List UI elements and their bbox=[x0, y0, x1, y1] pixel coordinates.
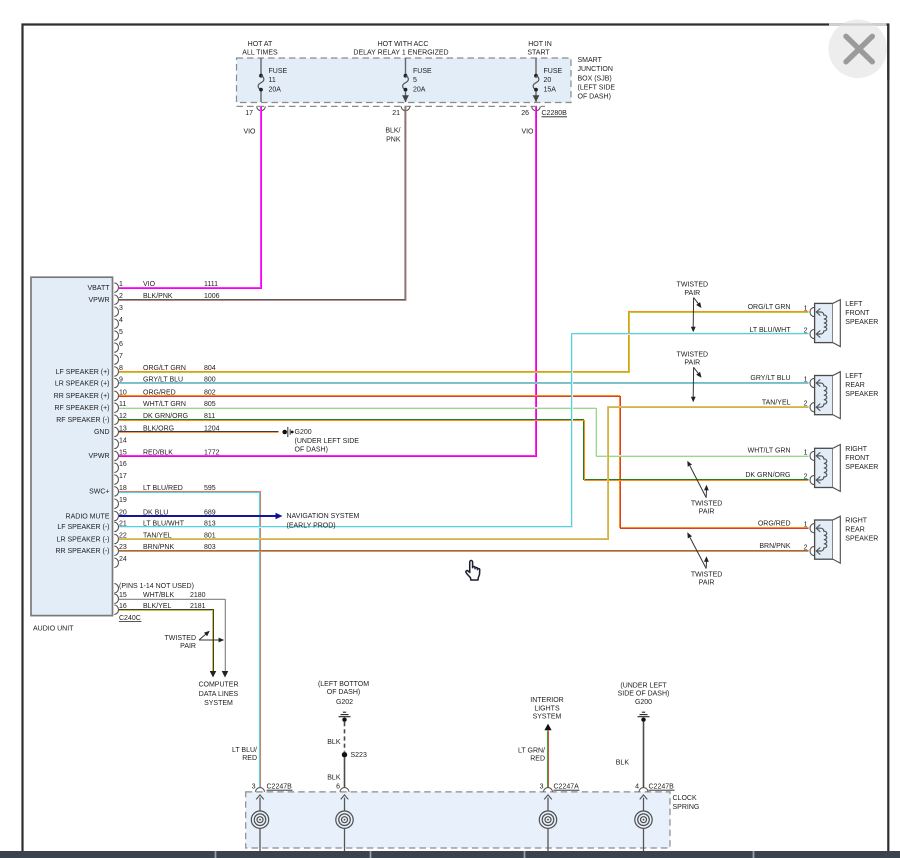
svg-text:(LEFT BOTTOM: (LEFT BOTTOM bbox=[318, 681, 369, 688]
C240C pin 15 bbox=[114, 592, 205, 603]
pin label SWC+ (pin 18) bbox=[89, 489, 109, 496]
svg-text:LT BLU/: LT BLU/ bbox=[232, 747, 257, 754]
svg-text:PAIR: PAIR bbox=[684, 290, 700, 297]
pin label RR SPEAKER (-) (pin 23) bbox=[55, 548, 109, 555]
wire BLK G200 to clock spring pin 4 bbox=[616, 722, 644, 788]
svg-text:15: 15 bbox=[119, 592, 127, 599]
svg-text:18: 18 bbox=[119, 485, 127, 492]
svg-text:SPEAKER: SPEAKER bbox=[845, 391, 878, 398]
arrow to navigation system bbox=[276, 513, 360, 530]
svg-text:DK GRN/ORG: DK GRN/ORG bbox=[745, 472, 790, 479]
speaker LEFT REAR SPEAKER bbox=[804, 372, 879, 419]
svg-text:TAN/YEL: TAN/YEL bbox=[762, 399, 791, 406]
svg-text:SIDE OF DASH): SIDE OF DASH) bbox=[618, 690, 670, 697]
audio unit pin 12 bracket bbox=[114, 413, 127, 424]
wire label TAN/YEL 801 bbox=[143, 532, 216, 539]
twisted pair label (C240C data lines) bbox=[165, 631, 225, 650]
wire label GRY/LT BLU (speaker side) bbox=[750, 375, 790, 382]
smart junction box (SJB) bbox=[237, 58, 572, 106]
svg-text:1: 1 bbox=[804, 377, 808, 384]
svg-text:6: 6 bbox=[119, 341, 123, 348]
wire label LT BLU/RED 595 bbox=[143, 485, 216, 492]
svg-text:17: 17 bbox=[119, 473, 127, 480]
pin label VPWR (pin 2) bbox=[89, 297, 110, 304]
svg-text:G200: G200 bbox=[295, 429, 312, 436]
wire VIO 1111 (pin 1 to fuse 11) bbox=[119, 107, 262, 289]
svg-text:G202: G202 bbox=[336, 699, 353, 706]
svg-text:WHT/BLK: WHT/BLK bbox=[143, 592, 174, 599]
svg-text:G200: G200 bbox=[635, 699, 652, 706]
svg-text:BLK/YEL: BLK/YEL bbox=[143, 603, 172, 610]
svg-text:OF DASH): OF DASH) bbox=[327, 689, 360, 696]
wire label BLK/ORG 1204 bbox=[143, 425, 220, 432]
node HOT WITH ACC DELAY RELAY 1 ENERGIZED bbox=[353, 41, 448, 57]
svg-text:LT BLU/RED: LT BLU/RED bbox=[143, 485, 183, 492]
svg-text:RED: RED bbox=[242, 755, 257, 762]
svg-text:RR SPEAKER (-): RR SPEAKER (-) bbox=[55, 548, 109, 555]
svg-text:SPEAKER: SPEAKER bbox=[845, 464, 878, 471]
svg-text:HOT WITH ACC: HOT WITH ACC bbox=[378, 41, 429, 48]
wire label LT BLU/WHT (speaker side) bbox=[750, 327, 792, 334]
svg-text:20A: 20A bbox=[413, 87, 426, 94]
svg-text:START: START bbox=[527, 50, 550, 57]
pin label LF SPEAKER (+) (pin 8) bbox=[56, 369, 110, 376]
wire label LT BLU/RED (bottom) bbox=[232, 747, 257, 762]
svg-text:OF DASH): OF DASH) bbox=[295, 446, 328, 453]
svg-text:FRONT: FRONT bbox=[845, 310, 870, 317]
svg-text:HOT AT: HOT AT bbox=[248, 41, 273, 48]
wire label WHT/LT GRN (speaker side) bbox=[748, 448, 791, 455]
svg-text:RED: RED bbox=[530, 755, 545, 762]
audio unit pin 22 bracket bbox=[114, 532, 127, 543]
wire BLK G202 to S223 (dashed) bbox=[327, 722, 344, 752]
wire BLK S223 to clock spring pin 6 bbox=[327, 757, 344, 787]
clock spring connector C2247B pin 4 entry bbox=[635, 784, 675, 851]
svg-text:GRY/LT BLU: GRY/LT BLU bbox=[750, 375, 790, 382]
svg-text:21: 21 bbox=[392, 110, 400, 117]
svg-text:GND: GND bbox=[94, 429, 110, 436]
svg-text:CLOCK: CLOCK bbox=[673, 795, 697, 802]
audio unit pin 8 bracket bbox=[114, 365, 123, 376]
svg-text:ALL TIMES: ALL TIMES bbox=[242, 50, 278, 57]
svg-text:LIGHTS: LIGHTS bbox=[534, 705, 560, 712]
wire LT BLU/RED 595 (pin 18 to clock spring) bbox=[119, 492, 261, 788]
svg-text:SYSTEM: SYSTEM bbox=[533, 714, 562, 721]
svg-text:(UNDER LEFT: (UNDER LEFT bbox=[620, 683, 667, 690]
svg-text:(EARLY PROD): (EARLY PROD) bbox=[287, 523, 336, 530]
pin label RF SPEAKER (+) (pin 11) bbox=[54, 405, 109, 412]
svg-text:C2247A: C2247A bbox=[554, 784, 580, 791]
svg-text:2: 2 bbox=[804, 474, 808, 481]
svg-text:COMPUTER: COMPUTER bbox=[198, 682, 238, 689]
audio unit pin 10 bracket bbox=[114, 389, 127, 400]
fuse F11 (FUSE 11 20A) bbox=[258, 58, 287, 102]
svg-text:PAIR: PAIR bbox=[684, 359, 700, 366]
svg-text:24: 24 bbox=[119, 556, 127, 563]
svg-text:SYSTEM: SYSTEM bbox=[204, 700, 233, 707]
wire label GRY/LT BLU 800 bbox=[143, 376, 216, 383]
svg-text:16: 16 bbox=[119, 461, 127, 468]
audio unit pin 6 bracket bbox=[114, 341, 123, 352]
pin label RR SPEAKER (+) (pin 10) bbox=[54, 393, 110, 400]
clock spring connector C2247A pin 3 entry bbox=[539, 784, 579, 851]
svg-text:5: 5 bbox=[413, 77, 417, 84]
pin label LR SPEAKER (+) (pin 9) bbox=[55, 380, 110, 387]
pin label GND (pin 13) bbox=[94, 429, 110, 436]
wire label VIO (fuse 20) bbox=[521, 129, 534, 136]
ground G200 (right) bbox=[618, 683, 670, 722]
node HOT AT ALL TIMES bbox=[242, 41, 278, 57]
svg-text:JUNCTION: JUNCTION bbox=[578, 66, 613, 73]
wire label RED/BLK 1772 bbox=[143, 449, 220, 456]
svg-text:3: 3 bbox=[252, 784, 256, 791]
svg-text:8: 8 bbox=[119, 365, 123, 372]
audio unit pin 20 bracket bbox=[114, 509, 127, 520]
svg-text:HOT IN: HOT IN bbox=[528, 41, 552, 48]
splice S223 bbox=[342, 752, 367, 759]
arrow to interior lights system bbox=[530, 697, 563, 730]
pin label VPWR (pin 15) bbox=[89, 453, 110, 460]
wire label LT BLU/WHT 813 bbox=[143, 520, 216, 527]
wire label ORG/LT GRN (speaker side) bbox=[748, 304, 791, 311]
connector label C240C bbox=[119, 615, 142, 622]
connector C240C (pins 1-14 not used note) bbox=[114, 583, 194, 593]
svg-text:AUDIO UNIT: AUDIO UNIT bbox=[33, 625, 74, 632]
pin label RADIO MUTE (pin 20) bbox=[66, 513, 110, 520]
svg-text:PAIR: PAIR bbox=[699, 580, 715, 587]
svg-text:804: 804 bbox=[204, 365, 216, 372]
svg-text:1: 1 bbox=[804, 449, 808, 456]
wire DK GRN/ORG 811 (pin 12 to right front speaker 2) bbox=[119, 420, 809, 481]
arrows to computer data lines system bbox=[198, 671, 238, 707]
svg-text:LEFT: LEFT bbox=[845, 373, 863, 380]
svg-text:SWC+: SWC+ bbox=[89, 489, 109, 496]
svg-text:LF SPEAKER (-): LF SPEAKER (-) bbox=[57, 524, 109, 531]
wire label BLK/PNK 1006 bbox=[143, 293, 220, 300]
svg-text:1: 1 bbox=[804, 522, 808, 529]
svg-text:TWISTED: TWISTED bbox=[691, 501, 723, 508]
svg-text:TWISTED: TWISTED bbox=[165, 635, 197, 642]
fuse F5 (FUSE 5 20A) bbox=[402, 58, 432, 102]
wire BLK/ORG 1204 (pin 13 to G200) bbox=[119, 432, 279, 433]
svg-text:11: 11 bbox=[269, 77, 276, 84]
svg-text:17: 17 bbox=[245, 110, 253, 117]
svg-text:TWISTED: TWISTED bbox=[691, 572, 723, 579]
svg-text:VPWR: VPWR bbox=[89, 453, 110, 460]
svg-text:RIGHT: RIGHT bbox=[845, 446, 868, 453]
audio unit pin 9 bracket bbox=[114, 376, 123, 387]
connector C2280B pin 26 bbox=[521, 106, 567, 117]
wire label DK GRN/ORG (speaker side) bbox=[745, 472, 790, 479]
svg-text:PNK: PNK bbox=[386, 137, 401, 144]
svg-text:2: 2 bbox=[804, 401, 808, 408]
wire label ORG/LT GRN 804 bbox=[143, 365, 216, 372]
svg-text:DELAY RELAY 1 ENERGIZED: DELAY RELAY 1 ENERGIZED bbox=[353, 50, 448, 57]
svg-text:BLK: BLK bbox=[327, 775, 341, 782]
audio unit pin 18 bracket bbox=[114, 485, 127, 496]
audio unit pin 11 bracket bbox=[114, 401, 126, 412]
svg-text:VIO: VIO bbox=[521, 129, 534, 136]
wire label DK BLU 689 bbox=[143, 509, 216, 516]
wire DK BLU 689 (pin 20 to navigation system) bbox=[119, 516, 276, 517]
svg-text:PAIR: PAIR bbox=[180, 643, 196, 650]
svg-text:TWISTED: TWISTED bbox=[677, 351, 709, 358]
speaker RIGHT FRONT SPEAKER bbox=[804, 445, 879, 492]
SJB label bbox=[578, 57, 616, 100]
svg-text:SMART: SMART bbox=[578, 57, 603, 64]
pin label RF SPEAKER (-) (pin 12) bbox=[56, 417, 109, 424]
wire label VIO 1111 bbox=[143, 281, 218, 288]
wire label VIO (fuse 11) bbox=[243, 129, 256, 136]
svg-text:BLK/: BLK/ bbox=[385, 128, 400, 135]
svg-text:LF SPEAKER (+): LF SPEAKER (+) bbox=[56, 369, 110, 376]
bottom toolbar band bbox=[0, 851, 900, 858]
svg-text:15A: 15A bbox=[544, 87, 557, 94]
svg-text:VIO: VIO bbox=[143, 281, 156, 288]
twisted pair label (right rear) bbox=[687, 532, 722, 586]
svg-text:ORG/LT GRN: ORG/LT GRN bbox=[748, 304, 791, 311]
svg-text:RIGHT: RIGHT bbox=[845, 518, 868, 525]
svg-text:INTERIOR: INTERIOR bbox=[530, 697, 563, 704]
svg-text:595: 595 bbox=[204, 485, 216, 492]
svg-text:(PINS 1-14 NOT USED): (PINS 1-14 NOT USED) bbox=[119, 583, 194, 590]
audio unit pin 19 bracket bbox=[114, 497, 127, 508]
wire label ORG/RED 802 bbox=[143, 389, 216, 396]
C240C pin 16 bbox=[114, 603, 205, 614]
svg-text:5: 5 bbox=[119, 329, 123, 336]
svg-text:SPEAKER: SPEAKER bbox=[845, 536, 878, 543]
wire label BLK/PNK (fuse 5) bbox=[385, 128, 401, 144]
audio unit pin 14 bracket bbox=[114, 437, 127, 448]
svg-text:VPWR: VPWR bbox=[89, 297, 110, 304]
svg-text:3: 3 bbox=[540, 784, 544, 791]
wire label BRN/PNK (speaker side) bbox=[759, 543, 790, 550]
svg-text:LT GRN/: LT GRN/ bbox=[518, 747, 545, 754]
pin label LR SPEAKER (-) (pin 22) bbox=[57, 536, 110, 543]
connector C2280B pin 21 bbox=[392, 106, 410, 117]
svg-text:2180: 2180 bbox=[190, 592, 206, 599]
svg-text:FRONT: FRONT bbox=[845, 455, 870, 462]
wire BRN/PNK 803 (pin 23 to right rear speaker 2) bbox=[119, 551, 809, 552]
svg-text:19: 19 bbox=[119, 497, 127, 504]
connector C2280B pin 17 bbox=[245, 106, 265, 117]
svg-text:S223: S223 bbox=[351, 752, 367, 759]
audio unit pin 7 bracket bbox=[114, 353, 123, 364]
svg-text:RADIO MUTE: RADIO MUTE bbox=[66, 513, 110, 520]
audio unit pin 23 bracket bbox=[114, 544, 127, 555]
audio unit pin 15 bracket bbox=[114, 449, 127, 460]
audio unit pin 5 bracket bbox=[114, 329, 123, 340]
twisted pair label (left rear) bbox=[677, 351, 709, 402]
wire label LT GRN/RED bbox=[518, 747, 545, 762]
audio unit pin 3 bracket bbox=[114, 305, 123, 316]
wire label ORG/RED (speaker side) bbox=[758, 520, 791, 527]
close button X bbox=[829, 20, 889, 81]
svg-text:RR SPEAKER (+): RR SPEAKER (+) bbox=[54, 393, 110, 400]
svg-text:20A: 20A bbox=[269, 87, 282, 94]
pin label LF SPEAKER (-) (pin 21) bbox=[57, 524, 109, 531]
svg-text:REAR: REAR bbox=[845, 527, 864, 534]
svg-text:C2280B: C2280B bbox=[542, 110, 568, 117]
svg-text:SPRING: SPRING bbox=[673, 804, 700, 811]
wire GRY/LT BLU 800 (pin 9 to left rear speaker 1) bbox=[119, 383, 809, 384]
ground G202 bbox=[318, 681, 369, 722]
svg-text:FUSE: FUSE bbox=[544, 68, 563, 75]
svg-text:1: 1 bbox=[119, 281, 123, 288]
svg-text:SPEAKER: SPEAKER bbox=[845, 319, 878, 326]
svg-text:1111: 1111 bbox=[204, 281, 218, 288]
clock spring connector pin 6 entry bbox=[336, 784, 353, 851]
svg-text:REAR: REAR bbox=[845, 382, 864, 389]
svg-text:6: 6 bbox=[336, 784, 340, 791]
svg-text:VBATT: VBATT bbox=[87, 285, 110, 292]
svg-text:3: 3 bbox=[119, 305, 123, 312]
svg-text:PAIR: PAIR bbox=[699, 509, 715, 516]
mouse hand cursor bbox=[466, 561, 480, 580]
wire BLK/YEL 2181 (C240C pin 16 to computer data lines) bbox=[119, 610, 214, 672]
svg-text:RF SPEAKER (+): RF SPEAKER (+) bbox=[54, 405, 109, 412]
svg-text:16: 16 bbox=[119, 603, 127, 610]
wire ORG/LT GRN 804 (pin 8 to left front speaker 1) bbox=[119, 312, 809, 373]
clock spring connector C2247B pin 3 entry bbox=[251, 784, 292, 851]
svg-text:20: 20 bbox=[544, 77, 552, 84]
wire TAN/YEL 801 (pin 22 to left rear speaker 2) bbox=[119, 407, 809, 540]
wire LT BLU/WHT 813 (pin 21 to left front speaker 2) bbox=[119, 334, 809, 528]
fuse F20 (FUSE 20 15A) bbox=[533, 58, 563, 102]
svg-text:(LEFT SIDE: (LEFT SIDE bbox=[578, 84, 616, 91]
audio unit pin 1 bracket bbox=[114, 281, 123, 292]
svg-text:2181: 2181 bbox=[190, 603, 206, 610]
svg-text:DATA LINES: DATA LINES bbox=[199, 691, 239, 698]
svg-text:FUSE: FUSE bbox=[269, 68, 288, 75]
svg-text:7: 7 bbox=[119, 353, 123, 360]
svg-text:C2247B: C2247B bbox=[267, 784, 293, 791]
audio unit pin 13 bracket bbox=[114, 425, 127, 436]
audio unit pin 17 bracket bbox=[114, 473, 127, 484]
node HOT IN START bbox=[527, 41, 551, 57]
wire WHT/LT GRN 805 (pin 11 to right front speaker 1) bbox=[119, 408, 809, 457]
audio unit pin 4 bracket bbox=[114, 317, 123, 328]
svg-text:2: 2 bbox=[804, 328, 808, 335]
svg-text:LT BLU/WHT: LT BLU/WHT bbox=[750, 327, 792, 334]
audio unit U1 bbox=[31, 277, 113, 632]
svg-text:4: 4 bbox=[635, 784, 639, 791]
svg-text:RF SPEAKER (-): RF SPEAKER (-) bbox=[56, 417, 109, 424]
pin label VBATT (pin 1) bbox=[87, 285, 110, 292]
svg-text:BLK: BLK bbox=[616, 759, 630, 766]
svg-text:NAVIGATION SYSTEM: NAVIGATION SYSTEM bbox=[287, 513, 360, 520]
svg-text:1: 1 bbox=[804, 306, 808, 313]
svg-text:TWISTED: TWISTED bbox=[677, 282, 709, 289]
wire WHT/BLK 2180 (C240C pin 15 to computer data lines) bbox=[119, 599, 226, 672]
speaker LEFT FRONT SPEAKER bbox=[804, 300, 879, 347]
wire label TAN/YEL (speaker side) bbox=[762, 399, 791, 406]
speaker RIGHT REAR SPEAKER bbox=[804, 516, 879, 563]
svg-text:FUSE: FUSE bbox=[413, 68, 432, 75]
wire label BRN/PNK 803 bbox=[143, 544, 216, 551]
twisted pair label (left front) bbox=[677, 282, 709, 333]
svg-text:(UNDER LEFT SIDE: (UNDER LEFT SIDE bbox=[295, 438, 360, 445]
svg-text:ORG/RED: ORG/RED bbox=[758, 520, 791, 527]
svg-text:C2247B: C2247B bbox=[649, 784, 675, 791]
svg-text:LR SPEAKER (+): LR SPEAKER (+) bbox=[55, 380, 110, 387]
ground ref G200 splice (pin 13) bbox=[282, 427, 359, 454]
svg-text:OF DASH): OF DASH) bbox=[578, 94, 611, 101]
wire LT GRN/RED (interior lights to clock spring C2247A pin 3) bbox=[548, 730, 549, 788]
audio unit pin 2 bracket bbox=[114, 293, 123, 304]
svg-text:BLK: BLK bbox=[327, 739, 341, 746]
wire label DK GRN/ORG 811 bbox=[143, 413, 215, 420]
svg-text:LR SPEAKER (-): LR SPEAKER (-) bbox=[57, 536, 110, 543]
svg-text:2: 2 bbox=[804, 545, 808, 552]
wire label WHT/LT GRN 805 bbox=[143, 401, 216, 408]
wire RED/BLK 1772 / VIO (pin 15 to fuse 20) bbox=[119, 107, 537, 457]
twisted pair label (right front) bbox=[687, 461, 722, 516]
wire ORG/RED 802 (pin 10 to right rear speaker 1) bbox=[119, 396, 809, 529]
svg-text:LEFT: LEFT bbox=[845, 301, 863, 308]
audio unit pin 24 bracket bbox=[114, 556, 127, 567]
svg-text:WHT/LT GRN: WHT/LT GRN bbox=[748, 448, 791, 455]
svg-text:4: 4 bbox=[119, 317, 123, 324]
audio unit pin 16 bracket bbox=[114, 461, 127, 472]
clock spring module bbox=[246, 792, 700, 848]
svg-text:BRN/PNK: BRN/PNK bbox=[759, 543, 790, 550]
wire BLK/PNK 1006 (pin 2 to fuse 5) bbox=[119, 107, 406, 301]
svg-text:BOX (SJB): BOX (SJB) bbox=[578, 75, 612, 82]
audio unit pin 21 bracket bbox=[114, 520, 127, 531]
svg-text:C240C: C240C bbox=[119, 615, 141, 622]
svg-text:14: 14 bbox=[119, 437, 127, 444]
svg-text:ORG/LT GRN: ORG/LT GRN bbox=[143, 365, 186, 372]
svg-text:VIO: VIO bbox=[243, 129, 256, 136]
svg-text:26: 26 bbox=[521, 110, 529, 117]
